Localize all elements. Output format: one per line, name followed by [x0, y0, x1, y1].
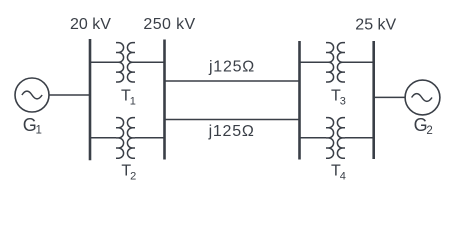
transformer T2 primary winding — [116, 118, 124, 159]
bus 250 kV — [163, 40, 166, 160]
svg-text:250 kV: 250 kV — [143, 16, 195, 33]
transmission line 1 — [165, 80, 300, 82]
wire T1 to 250kV bus — [135, 61, 165, 63]
transformer T4 secondary winding — [337, 118, 345, 159]
generator G2 — [405, 80, 440, 115]
transformer T3 secondary winding — [337, 43, 345, 82]
transformer T1 secondary winding — [127, 43, 135, 82]
svg-text:j125Ω: j125Ω — [208, 123, 255, 140]
wire G1 to 20kV bus — [49, 94, 90, 96]
svg-text:G1: G1 — [23, 115, 42, 137]
wire T2 to 250kV bus — [135, 137, 165, 139]
transformer T3 primary winding — [326, 43, 334, 82]
svg-text:20 kV: 20 kV — [70, 16, 111, 33]
svg-text:T1: T1 — [121, 88, 136, 108]
svg-text:T4: T4 — [331, 162, 346, 182]
wire 20kV bus to T1 — [90, 61, 116, 63]
bus 20 kV — [89, 39, 92, 160]
wire right bus to T4 — [300, 137, 327, 139]
transformer T2 secondary winding — [127, 118, 135, 159]
transformer T1 primary winding — [116, 43, 124, 82]
transmission line 2 — [165, 119, 300, 121]
wire 25kV bus to G2 — [374, 96, 406, 98]
transformer T4 primary winding — [326, 118, 334, 159]
svg-text:G2: G2 — [414, 115, 433, 137]
wire 20kV bus to T2 — [90, 137, 116, 139]
wire T3 to 25kV bus — [345, 61, 374, 63]
svg-text:25 kV: 25 kV — [355, 17, 396, 34]
svg-text:T3: T3 — [331, 87, 346, 107]
svg-text:j125Ω: j125Ω — [208, 59, 255, 76]
generator G1 — [15, 78, 49, 112]
wire right bus to T3 — [300, 61, 327, 63]
bus right (receiving) — [298, 41, 301, 160]
svg-text:T2: T2 — [121, 162, 136, 182]
wire T4 to 25kV bus — [345, 137, 374, 139]
bus 25 kV — [372, 41, 375, 159]
